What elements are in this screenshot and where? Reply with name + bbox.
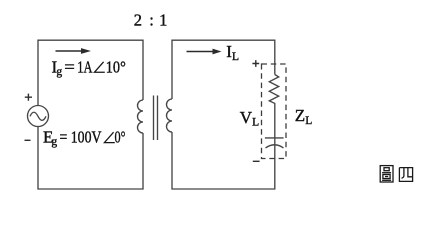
svg-text:Ig: Ig [52,57,63,78]
svg-text:ZL: ZL [295,106,312,127]
svg-text:1: 1 [159,10,167,29]
svg-text:VL: VL [240,108,259,129]
svg-text::: : [149,10,154,29]
svg-text:=: = [64,57,75,76]
svg-text:0°: 0° [115,128,126,147]
svg-text:= 100V: = 100V [60,128,103,147]
svg-text:IL: IL [226,42,239,63]
svg-text:1A: 1A [77,57,93,76]
svg-text:Eg: Eg [43,128,57,149]
svg-text:10°: 10° [106,57,126,76]
svg-text:2: 2 [134,10,142,29]
